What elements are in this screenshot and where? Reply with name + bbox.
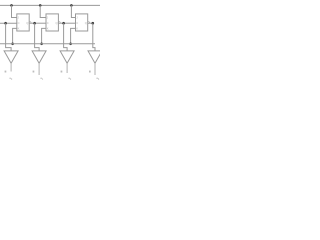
wire bus to U2 top pin	[40, 5, 46, 17]
buffer A1	[4, 51, 18, 63]
wire A4 output	[94, 63, 96, 75]
wire U2 Q output to U3	[60, 22, 75, 24]
wire clock input	[0, 22, 17, 24]
label A2 tick	[33, 71, 35, 73]
label A1 tick	[5, 71, 7, 73]
node U3 clear junction on bus	[69, 43, 72, 46]
U2 output bubble	[58, 22, 60, 24]
wire U3 clear pin down to clear bus	[71, 28, 76, 43]
wire bus to U3 top pin	[71, 5, 75, 17]
svg-text:K: K	[18, 26, 20, 30]
buffer A3	[60, 51, 74, 63]
svg-text:Q: Q	[85, 21, 87, 25]
wire input to buffer A1	[6, 23, 12, 51]
node U1 clear junction on bus	[11, 43, 14, 46]
flip-flop U3	[76, 14, 88, 31]
buffer A4	[88, 51, 102, 63]
wire U1 clear pin down to clear bus	[13, 28, 17, 43]
flip-flop U2	[46, 14, 58, 31]
node U3 output junction	[92, 22, 95, 25]
svg-text:C: C	[47, 21, 49, 25]
node U2 clear junction on bus	[40, 43, 43, 46]
node U2 output junction	[62, 22, 65, 25]
U1 output bubble	[29, 22, 31, 24]
node J2 top bus junction 2	[39, 4, 42, 7]
svg-text:Q: Q	[56, 21, 58, 25]
svg-text:K: K	[47, 26, 49, 30]
wire U1 Q output to U2	[31, 22, 46, 24]
wire U1 output to buffer A2	[35, 23, 40, 51]
label A4 tick	[89, 71, 91, 73]
U3 output bubble	[88, 22, 90, 24]
wire A2 output	[38, 63, 40, 75]
wire A3 output	[66, 63, 68, 73]
wire top supply bus	[0, 4, 100, 6]
wire U2 output to buffer A3	[64, 23, 68, 51]
svg-text:C: C	[76, 21, 78, 25]
flip-flop U1	[17, 14, 29, 31]
wire bus to U1 top pin	[12, 5, 17, 17]
node J1 top bus junction 1	[10, 4, 13, 7]
node J3 top bus junction 3	[70, 4, 73, 7]
wire A1 output	[10, 63, 12, 71]
buffer A2	[32, 51, 46, 63]
svg-text:Q: Q	[26, 21, 28, 25]
wire clear bus	[0, 43, 95, 45]
label A3 tick	[61, 71, 63, 73]
wire U3 Q output	[90, 22, 93, 24]
wire U3 output to buffer A4	[93, 23, 95, 51]
svg-text:K: K	[76, 26, 78, 30]
node input junction	[4, 22, 7, 25]
wire U2 clear pin down to clear bus	[42, 28, 46, 43]
svg-text:C: C	[18, 21, 20, 25]
node U1 output junction	[33, 22, 36, 25]
